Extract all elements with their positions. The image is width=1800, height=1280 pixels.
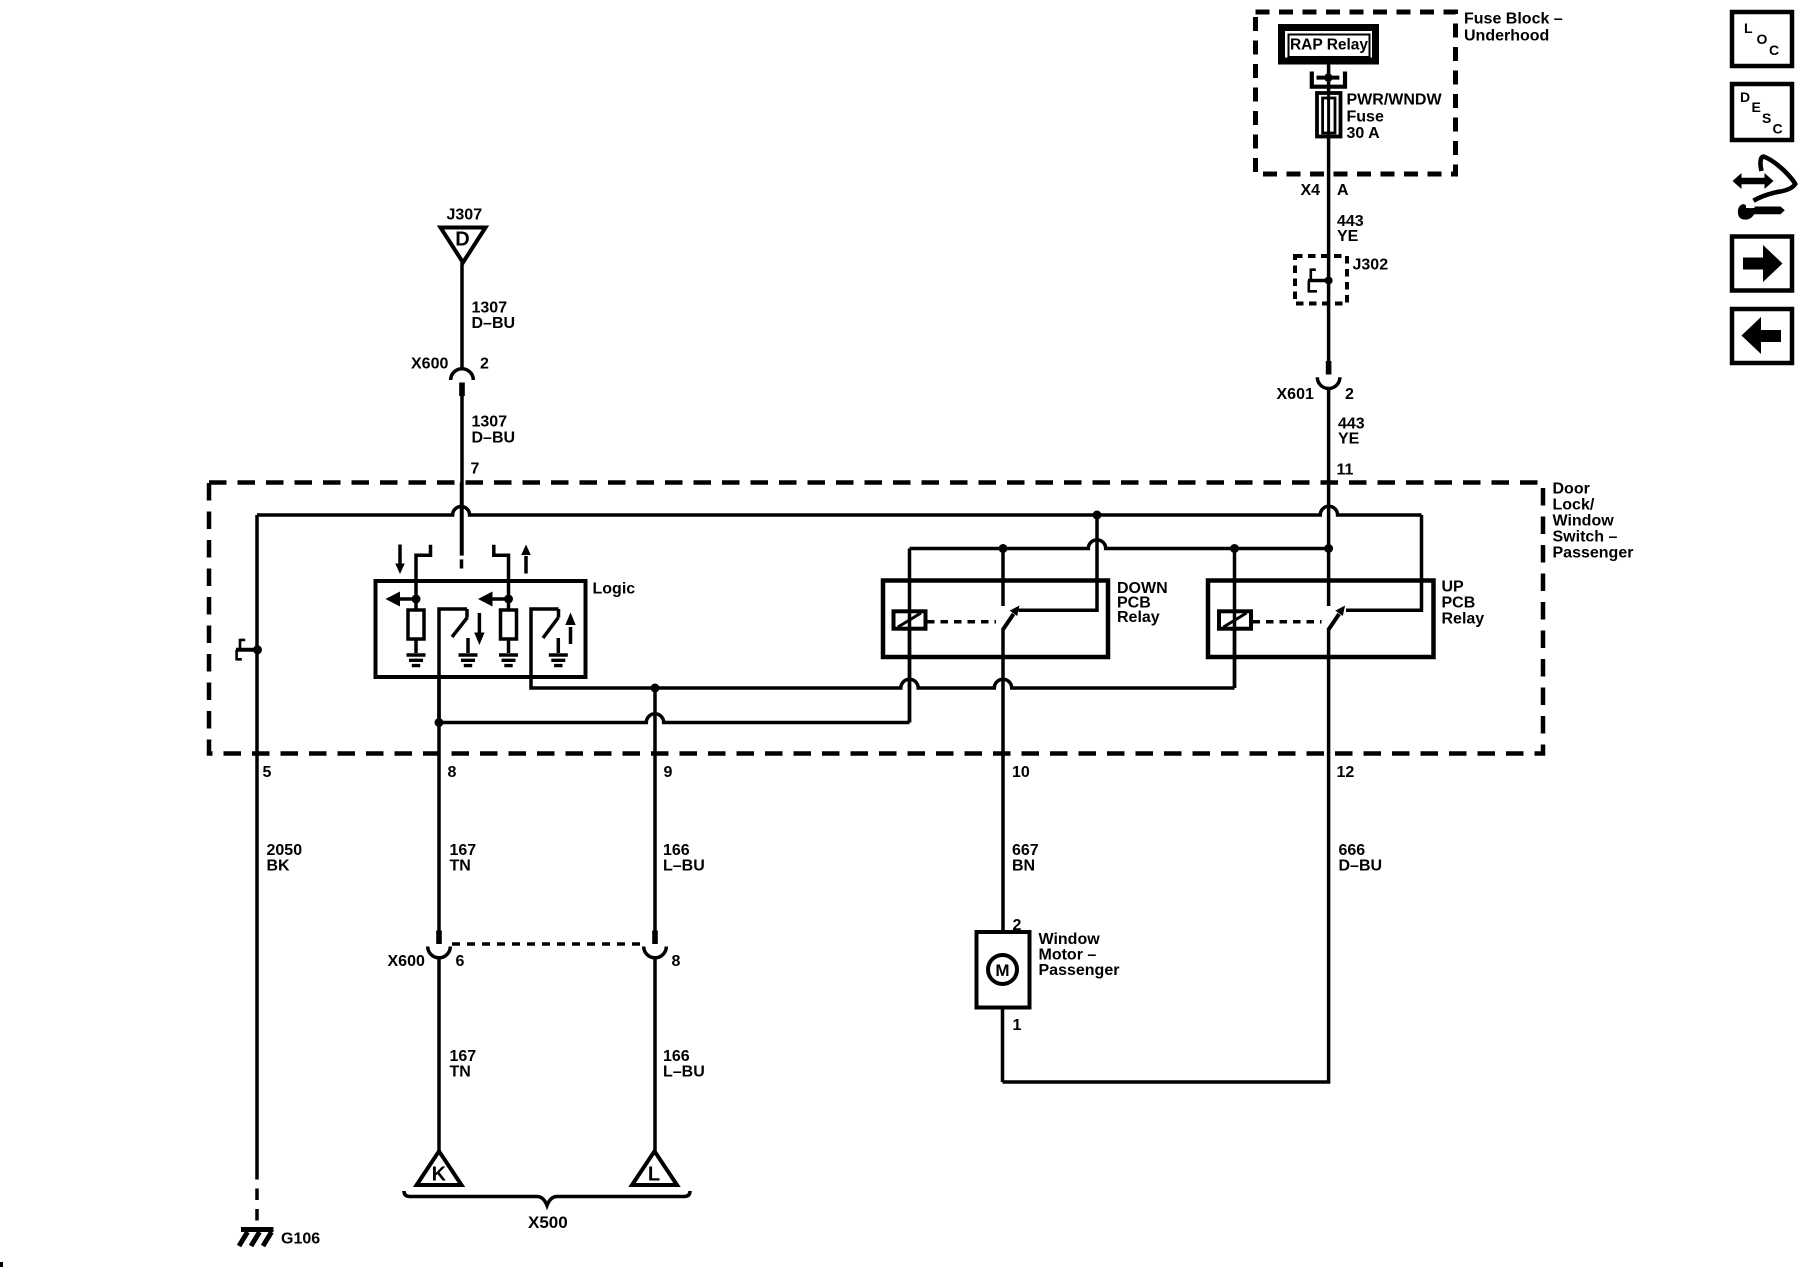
svg-text:Fuse Block –: Fuse Block – <box>1464 11 1563 28</box>
switch S1 down <box>439 609 467 723</box>
UP coil <box>1233 549 1237 689</box>
left hook contact <box>416 545 431 581</box>
svg-text:9: 9 <box>664 764 673 781</box>
up arrow outside logic <box>524 556 528 574</box>
wire J307 to X600 (1307 D-BU) <box>460 263 464 370</box>
svg-text:YE: YE <box>1337 228 1359 245</box>
wire 166 L-BU to L <box>653 958 657 1151</box>
svg-text:M: M <box>995 961 1009 980</box>
connector X601 pin 2 symbol <box>1326 361 1332 375</box>
DOWN coil <box>908 549 912 723</box>
wire logic pin 8 down to X600 <box>437 677 441 931</box>
svg-text:G106: G106 <box>281 1231 320 1248</box>
sidebar LOC box <box>1732 12 1792 66</box>
svg-text:Switch –: Switch – <box>1553 529 1618 546</box>
wire RAP relay to fuse <box>1327 65 1331 94</box>
window motor passenger box <box>977 932 1030 1008</box>
svg-text:J307: J307 <box>447 207 483 224</box>
svg-text:5: 5 <box>263 764 272 781</box>
wire top bus to UP relay contact <box>1346 515 1422 610</box>
svg-text:166: 166 <box>663 842 690 859</box>
svg-text:Window: Window <box>1553 513 1615 530</box>
svg-text:BN: BN <box>1012 858 1035 875</box>
svg-text:Underhood: Underhood <box>1464 28 1549 45</box>
svg-text:167: 167 <box>450 1048 477 1065</box>
svg-text:X600: X600 <box>388 953 425 970</box>
triangle connector K <box>417 1151 462 1185</box>
connector X600 pin 2 symbol <box>451 369 474 380</box>
svg-text:D: D <box>455 229 469 251</box>
wire DOWN coil feed up <box>908 629 912 723</box>
wire pin 10 667 BN <box>1001 628 1005 932</box>
connector X600 pin 8 symbol <box>652 931 658 945</box>
X600 connector body dashed link <box>452 942 642 946</box>
svg-text:Relay: Relay <box>1442 611 1485 628</box>
sidebar hand/tools icon <box>1733 157 1796 220</box>
junction dot top bus node <box>1093 511 1102 520</box>
svg-text:PWR/WNDW: PWR/WNDW <box>1347 92 1443 109</box>
svg-text:E: E <box>1752 99 1761 115</box>
relay U2 UP PCB Relay box <box>1208 581 1434 658</box>
door lock / window switch passenger dashed box <box>209 483 1543 754</box>
svg-text:D–BU: D–BU <box>472 430 516 447</box>
junction dot pin 9 <box>651 684 660 693</box>
right hook contact <box>494 545 509 581</box>
switch S2 up <box>531 609 559 677</box>
logic pin wire right <box>507 581 511 610</box>
DOWN switch <box>1001 549 1005 607</box>
svg-text:X4: X4 <box>1301 182 1321 199</box>
wire pin 5 ground 2050 BK <box>255 515 259 1168</box>
svg-text:D–BU: D–BU <box>472 315 516 332</box>
junction dot second bus at pin 11 wire <box>1324 544 1333 553</box>
svg-text:12: 12 <box>1337 764 1355 781</box>
UP coil linkage dashed <box>1253 620 1322 624</box>
svg-text:Relay: Relay <box>1117 609 1160 626</box>
svg-text:L: L <box>648 1164 660 1186</box>
svg-text:L–BU: L–BU <box>663 1064 705 1081</box>
logic box <box>376 581 586 677</box>
svg-text:PCB: PCB <box>1442 595 1476 612</box>
sidebar DESC box <box>1732 84 1792 140</box>
svg-text:C: C <box>1769 42 1779 58</box>
svg-text:1: 1 <box>1013 1017 1022 1034</box>
fuse PWR/WNDW 30A symbol <box>1317 93 1341 137</box>
svg-text:TN: TN <box>450 1064 471 1081</box>
svg-text:2050: 2050 <box>267 842 303 859</box>
DOWN coil linkage dashed <box>927 620 996 624</box>
svg-text:Door: Door <box>1553 481 1590 498</box>
svg-text:Lock/: Lock/ <box>1553 497 1595 514</box>
svg-text:Passenger: Passenger <box>1039 962 1120 979</box>
RAP Relay box <box>1282 28 1376 62</box>
wire top bus to DOWN relay contact <box>1019 515 1098 610</box>
wire 167 TN to K <box>437 958 441 1151</box>
down arrow inside logic <box>478 613 482 634</box>
triangle connector L <box>632 1151 677 1185</box>
second bus wire <box>910 540 1329 549</box>
svg-text:667: 667 <box>1012 842 1039 859</box>
svg-text:8: 8 <box>448 764 457 781</box>
UP switch <box>1329 614 1340 630</box>
wire pin 12 666 D-BU <box>1003 628 1329 1082</box>
svg-text:1307: 1307 <box>472 414 508 431</box>
wire logic pin 8 net (y722) <box>439 714 910 723</box>
up arrow inside logic <box>569 627 573 644</box>
svg-text:30 A: 30 A <box>1347 125 1381 142</box>
svg-text:L–BU: L–BU <box>663 858 705 875</box>
svg-text:UP: UP <box>1442 579 1465 596</box>
svg-text:11: 11 <box>1337 462 1354 479</box>
G106 ground symbol <box>241 1227 274 1232</box>
wire pin 7 into logic <box>460 483 464 556</box>
junction dot pin 8 <box>435 718 444 727</box>
svg-text:L: L <box>1744 20 1753 36</box>
svg-text:X601: X601 <box>1277 386 1314 403</box>
left arrow 2 <box>492 597 510 601</box>
triangle connector J307 D <box>441 228 486 263</box>
svg-text:1307: 1307 <box>472 300 508 317</box>
relay U1 DOWN PCB Relay box <box>883 581 1108 658</box>
wire logic pin 9 net (y688) <box>531 677 1235 688</box>
svg-text:2: 2 <box>1345 386 1354 403</box>
switch center contact from pin 7 <box>460 554 464 558</box>
page corner mark <box>0 1262 3 1267</box>
svg-text:166: 166 <box>663 1048 690 1065</box>
svg-text:Logic: Logic <box>593 581 636 598</box>
svg-text:RAP Relay: RAP Relay <box>1290 37 1368 54</box>
svg-text:7: 7 <box>471 461 480 478</box>
junction dot second bus at DOWN switch <box>999 544 1008 553</box>
wire UP coil feed up <box>1233 629 1237 688</box>
junction J302 dashed box <box>1295 256 1347 304</box>
svg-text:666: 666 <box>1339 842 1366 859</box>
svg-text:A: A <box>1337 182 1349 199</box>
svg-text:2: 2 <box>480 356 489 373</box>
ground under R2 <box>499 655 518 666</box>
wire pin 9 down to X600 <box>653 688 657 931</box>
svg-text:D: D <box>1740 89 1750 105</box>
svg-text:167: 167 <box>450 842 477 859</box>
logic pin wire left <box>414 581 418 610</box>
connector X600 pin 6 symbol <box>436 931 442 945</box>
ground under S2 <box>557 638 561 653</box>
svg-text:BK: BK <box>267 858 291 875</box>
svg-text:X600: X600 <box>411 356 448 373</box>
svg-text:O: O <box>1757 31 1768 47</box>
ground under S1 <box>466 638 470 653</box>
svg-text:TN: TN <box>450 858 471 875</box>
svg-text:Window: Window <box>1039 931 1101 948</box>
svg-text:C: C <box>1773 121 1783 137</box>
X500 brace <box>404 1191 690 1206</box>
junction dot second bus at UP coil <box>1230 544 1239 553</box>
left arrow 1 <box>399 597 417 601</box>
svg-text:10: 10 <box>1012 764 1030 781</box>
svg-text:J302: J302 <box>1353 257 1389 274</box>
svg-text:X500: X500 <box>528 1213 568 1232</box>
ground under R1 <box>407 655 426 666</box>
svg-text:Fuse: Fuse <box>1347 109 1384 126</box>
sidebar next arrow box <box>1732 237 1792 291</box>
wire motor pin 1 <box>1001 1008 1005 1083</box>
splice symbol on ground wire <box>236 648 258 652</box>
svg-text:S: S <box>1762 110 1771 126</box>
resistor R1 <box>408 610 424 639</box>
top feed bus wire <box>257 506 1422 515</box>
down arrow outside logic <box>398 545 402 565</box>
svg-text:8: 8 <box>672 953 681 970</box>
sidebar back arrow box <box>1732 309 1792 363</box>
svg-text:Motor –: Motor – <box>1039 947 1097 964</box>
wire X600 to switch pin 7 <box>460 396 464 556</box>
svg-text:Passenger: Passenger <box>1553 545 1634 562</box>
RAP relay terminal bracket <box>1312 72 1345 87</box>
resistor R2 <box>501 610 517 639</box>
fuse block underhood dashed box <box>1256 12 1456 174</box>
J302 in-line connector symbol <box>1308 279 1329 283</box>
wire X601 to switch pin 11 <box>1327 389 1331 607</box>
svg-text:K: K <box>432 1164 447 1186</box>
svg-text:D–BU: D–BU <box>1339 858 1383 875</box>
svg-text:6: 6 <box>456 953 465 970</box>
wire fuse to J302 (443 YE) <box>1327 136 1331 361</box>
svg-text:YE: YE <box>1338 431 1360 448</box>
